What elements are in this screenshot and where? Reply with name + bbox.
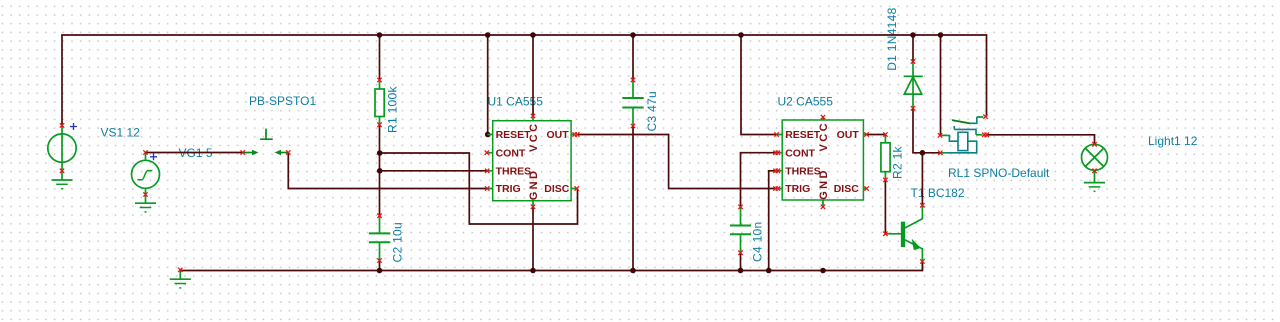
node U1 DISC pin (575, 186, 579, 190)
pin label U1 RESET (496, 129, 532, 141)
label PB-SPSTO1 (249, 94, 316, 108)
svg-text:DISC: DISC (834, 183, 860, 195)
node lamp top terminal (1092, 142, 1096, 146)
wire U2 CONT to C4 top (741, 153, 777, 207)
capacitor C4 (730, 207, 751, 253)
node C3 top terminal (631, 78, 635, 82)
wire node R1/C2 to U1 THRES (380, 170, 488, 172)
junction node ground rail / C4 (738, 268, 744, 274)
wire U1 OUT to U2 TRIG (577, 135, 777, 189)
svg-text:C2 10u: C2 10u (391, 222, 405, 263)
node T1 collector terminal (920, 203, 924, 207)
svg-text:GND: GND (818, 168, 830, 200)
svg-text:U2 CA555: U2 CA555 (778, 95, 834, 109)
svg-text:C3 47u: C3 47u (645, 91, 659, 132)
wire node R1/C2 to U1 DISC loop (380, 153, 578, 224)
VS1 plus sign (70, 123, 77, 130)
node U2 THRES pin (773, 169, 780, 173)
pin label U1 CONT (496, 147, 526, 159)
node C2 top terminal (377, 214, 381, 218)
label VG1 5 (179, 146, 213, 160)
ground below VS1 (52, 171, 73, 189)
svg-text:RESET: RESET (496, 129, 532, 141)
label D1 1N4148 (885, 7, 899, 70)
junction node R1 bottom / DISC net (377, 150, 383, 156)
junction node rail/U2 RESET (738, 32, 744, 38)
node PB right terminal (286, 150, 290, 154)
relay RL1 switch contact (952, 117, 983, 135)
svg-text:CONT: CONT (785, 147, 815, 159)
wire R1 bottom through junctions to C2 top (379, 125, 381, 216)
svg-text:R1 100k: R1 100k (386, 86, 400, 133)
ground below lamp (1084, 171, 1105, 192)
node U1 CONT pin (485, 151, 489, 155)
wire U2 THRES to ground rail (769, 171, 777, 271)
pin label U2 THRES (785, 166, 821, 178)
pin label U2 CONT (785, 147, 815, 159)
junction node D1 / T1 collector / relay coil (920, 150, 926, 156)
node C2 bottom terminal (377, 258, 381, 262)
svg-text:C4 10n: C4 10n (751, 222, 765, 263)
junction node rail/relay coil (938, 32, 944, 38)
node U2 DISC pin (864, 186, 868, 190)
node C4 bottom terminal (738, 251, 742, 255)
pin label U1 VCC (528, 122, 540, 152)
node U2 RESET pin (774, 132, 778, 136)
wire U1 GND to ground rail (532, 207, 534, 271)
node R2 bottom terminal (883, 178, 887, 182)
wire rail down to D1 top (912, 35, 914, 62)
label U2 CA555 (778, 95, 834, 109)
wire R2 bottom to T1 base (884, 180, 886, 234)
wire pushbutton down to U1 TRIG (288, 153, 487, 189)
node R1 bottom terminal (377, 123, 381, 127)
wire relay switch out to lamp (987, 135, 1095, 145)
label R2 1k (891, 145, 905, 179)
node lamp bottom terminal (1092, 169, 1096, 173)
node relay switch top terminal (983, 114, 987, 118)
node D1 top terminal (911, 59, 915, 63)
node PB left terminal (241, 150, 245, 154)
node R2 top terminal (883, 132, 887, 136)
svg-text:RL1 SPNO-Default: RL1 SPNO-Default (948, 166, 1050, 180)
node U1 OUT pin (572, 132, 579, 136)
junction node ground rail / C3 (630, 268, 636, 274)
label R1 100k (386, 86, 400, 133)
svg-text:DISC: DISC (544, 183, 570, 195)
wire bottom ground rail (180, 262, 922, 271)
voltage generator VG1 (132, 153, 160, 195)
wire T1 emitter to ground rail (921, 262, 923, 271)
svg-text:VCC: VCC (818, 121, 830, 151)
pin label U1 DISC (544, 183, 570, 195)
label T1 BC182 (911, 186, 965, 200)
svg-text:OUT: OUT (547, 129, 570, 141)
svg-text:VS1 12: VS1 12 (101, 126, 141, 140)
node relay coil plus terminal (938, 133, 942, 137)
node R1 top terminal (377, 78, 381, 82)
ground at bottom rail left end (170, 271, 191, 288)
relay RL1 coil (946, 132, 977, 153)
pin label U2 GND (818, 168, 830, 200)
svg-text:THRES: THRES (785, 166, 821, 178)
junction node rail/U1 VCC (530, 32, 536, 38)
svg-text:CONT: CONT (496, 147, 526, 159)
svg-text:Light1 12: Light1 12 (1148, 134, 1198, 148)
junction node rail/U1 RESET (485, 32, 491, 38)
node U2 CONT pin (773, 151, 780, 155)
wire rail to R1 top (379, 35, 381, 80)
node U2 GND pin (821, 205, 825, 209)
svg-text:R2 1k: R2 1k (891, 145, 905, 179)
capacitor C2 (369, 216, 390, 261)
voltage source VS1 (48, 125, 76, 170)
svg-text:GND: GND (528, 169, 540, 201)
wire collector node down to T1 collector (921, 153, 923, 206)
label C2 10u (391, 222, 405, 263)
pin label U1 THRES (496, 166, 532, 178)
svg-text:PB-SPSTO1: PB-SPSTO1 (249, 94, 316, 108)
transistor Q1 BC182 (885, 205, 922, 261)
resistor R2 (881, 135, 890, 180)
svg-text:TRIG: TRIG (496, 183, 521, 195)
label VS1 12 (101, 126, 141, 140)
svg-text:TRIG: TRIG (785, 183, 810, 195)
node C4 top terminal (738, 205, 742, 209)
junction node rail/D1 (910, 32, 916, 38)
label C4 10n (751, 222, 765, 263)
capacitor C3 (622, 80, 643, 126)
node VG1 bottom terminal (143, 192, 147, 196)
node relay coil minus terminal (938, 151, 942, 155)
junction node ground rail / U2 GND (820, 268, 826, 274)
wire VG1 to pushbutton (146, 152, 243, 154)
wire U2 OUT to R2 top (867, 134, 886, 136)
node U1 VCC pin (531, 114, 535, 118)
VG1 plus sign (150, 153, 157, 160)
node relay switch out terminal (982, 133, 989, 137)
node U2 TRIG pin (773, 186, 780, 190)
pin label U1 GND (528, 169, 540, 201)
junction node R1 bottom / THRES net (377, 168, 383, 174)
node T1 base terminal (883, 232, 887, 236)
node D1 bottom terminal (911, 106, 915, 110)
svg-text:OUT: OUT (837, 129, 860, 141)
pin label U2 TRIG (785, 183, 810, 195)
svg-text:THRES: THRES (496, 166, 532, 178)
pin label U1 TRIG (496, 183, 521, 195)
wire rail to C3 top (632, 35, 634, 80)
junction node U1 RESET pin (485, 132, 491, 138)
node U2 VCC pin (821, 115, 825, 119)
relay RL1 coil terminal stubs (941, 135, 947, 152)
pin label U1 OUT (547, 129, 570, 141)
op-amp timer U1 CA555 box (488, 116, 577, 207)
wire top supply rail from VS1 up across to relay switch (62, 35, 987, 125)
junction node rail/C3 (630, 32, 636, 38)
wire C2 bottom to ground rail (379, 261, 381, 271)
pushbutton PB-SPSTO1 (244, 129, 289, 156)
node VS1 top terminal (60, 123, 64, 127)
op-amp timer U2 CA555 box (777, 117, 867, 207)
wire rail down to U1 VCC (532, 35, 534, 116)
wire C3 bottom to ground rail (632, 126, 634, 271)
pin label U2 VCC (818, 121, 830, 151)
svg-text:RESET: RESET (785, 129, 821, 141)
svg-text:VCC: VCC (528, 122, 540, 152)
label RL1 SPNO-Default (948, 166, 1050, 180)
label U1 CA555 (488, 95, 544, 109)
svg-text:D1 1N4148: D1 1N4148 (885, 7, 899, 70)
svg-text:U1 CA555: U1 CA555 (488, 95, 544, 109)
junction node rail/R1 (377, 32, 383, 38)
node U1 GND pin (531, 205, 535, 209)
label Light1 12 (1148, 134, 1198, 148)
junction node ground rail / C2 (377, 268, 383, 274)
node ground rail left end (178, 268, 182, 272)
junction node ground rail / U2 THRES net (766, 268, 772, 274)
svg-text:T1 BC182: T1 BC182 (911, 186, 965, 200)
ground below VG1 (135, 195, 156, 212)
wire rail down to U1 RESET (487, 35, 489, 135)
pin label U2 DISC (834, 183, 860, 195)
lamp Light1 (1082, 144, 1108, 170)
node C3 bottom terminal (631, 124, 635, 128)
diode D1 (904, 62, 923, 109)
wire D1 bottom to collector node and relay coil (913, 108, 940, 153)
node VS1 bottom terminal (60, 169, 64, 173)
node U1 THRES pin (485, 169, 489, 173)
junction node ground rail / U1 GND (530, 268, 536, 274)
wire rail down to relay coil plus (940, 35, 942, 135)
node T1 emitter terminal (920, 259, 924, 263)
label C3 47u (645, 91, 659, 132)
wire C4 bottom to ground rail (740, 253, 742, 271)
resistor R1 (375, 80, 384, 125)
node U2 OUT pin (864, 132, 868, 136)
pin label U2 RESET (785, 129, 821, 141)
node U1 TRIG pin (485, 186, 489, 190)
node VG1 top terminal (143, 150, 147, 154)
pin label U2 OUT (837, 129, 860, 141)
wire rail down to U2 RESET (741, 35, 776, 135)
